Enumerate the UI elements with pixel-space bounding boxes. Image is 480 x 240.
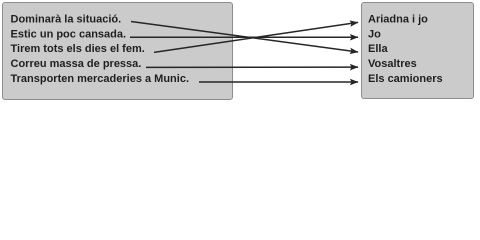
svg-text:Tirem tots els dies el fem.: Tirem tots els dies el fem. bbox=[11, 43, 145, 55]
svg-text:Estic un poc cansada.: Estic un poc cansada. bbox=[11, 28, 127, 40]
arrow 4: Correu -> Vosaltres bbox=[146, 66, 358, 68]
svg-text:Els camioners: Els camioners bbox=[368, 73, 443, 85]
svg-text:Jo: Jo bbox=[368, 28, 381, 40]
arrow 2: Estic -> Jo bbox=[130, 36, 358, 38]
arrow 5: Transporten -> Els camioners bbox=[199, 81, 358, 83]
svg-text:Correu massa de pressa.: Correu massa de pressa. bbox=[11, 58, 142, 70]
arrow 1: Dominarà -> Ella bbox=[131, 22, 358, 53]
svg-text:Dominarà la situació.: Dominarà la situació. bbox=[11, 13, 122, 25]
right box bbox=[362, 3, 474, 99]
svg-text:Ariadna i jo: Ariadna i jo bbox=[368, 13, 428, 25]
svg-text:Vosaltres: Vosaltres bbox=[368, 58, 417, 70]
arrow 3: Tirem -> Ariadna i jo bbox=[154, 22, 358, 52]
svg-text:Ella: Ella bbox=[368, 43, 388, 55]
left box bbox=[3, 3, 233, 100]
svg-text:Transporten mercaderies a Muni: Transporten mercaderies a Munic. bbox=[11, 73, 190, 85]
